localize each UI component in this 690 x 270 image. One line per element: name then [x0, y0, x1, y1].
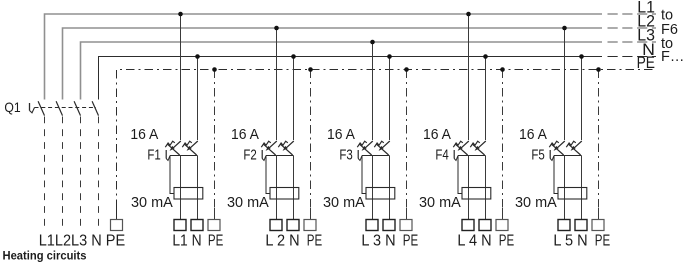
svg-text:F2: F2	[243, 148, 256, 164]
svg-text:F3: F3	[339, 148, 352, 164]
svg-text:16 A: 16 A	[519, 127, 547, 143]
svg-text:L 2 N: L 2 N	[265, 232, 299, 249]
svg-text:PE: PE	[637, 54, 655, 72]
svg-text:16 A: 16 A	[231, 127, 259, 143]
svg-text:30 mA: 30 mA	[515, 195, 557, 211]
svg-text:L 4 N: L 4 N	[457, 232, 491, 249]
svg-text:30 mA: 30 mA	[419, 195, 461, 211]
svg-text:30 mA: 30 mA	[323, 195, 365, 211]
svg-text:F4: F4	[435, 148, 448, 164]
svg-text:16 A: 16 A	[327, 127, 355, 143]
svg-text:Heating circuits: Heating circuits	[3, 249, 87, 263]
svg-text:PE: PE	[403, 232, 418, 249]
svg-text:16 A: 16 A	[130, 127, 158, 143]
svg-text:30 mA: 30 mA	[131, 195, 173, 211]
svg-text:PE: PE	[499, 232, 514, 249]
svg-text:L1L2L3 N PE: L1L2L3 N PE	[39, 232, 126, 249]
svg-text:L1 N: L1 N	[172, 232, 201, 249]
svg-text:30 mA: 30 mA	[227, 195, 269, 211]
svg-text:PE: PE	[307, 232, 322, 249]
svg-text:Q1: Q1	[4, 99, 20, 115]
svg-text:F5: F5	[531, 148, 544, 164]
svg-text:16 A: 16 A	[423, 127, 451, 143]
svg-text:F1: F1	[147, 148, 160, 164]
svg-text:L 3 N: L 3 N	[361, 232, 395, 249]
svg-text:F…: F…	[661, 49, 684, 65]
svg-text:L 5 N: L 5 N	[553, 232, 587, 249]
svg-text:PE: PE	[595, 232, 610, 249]
svg-text:PE: PE	[208, 232, 223, 249]
